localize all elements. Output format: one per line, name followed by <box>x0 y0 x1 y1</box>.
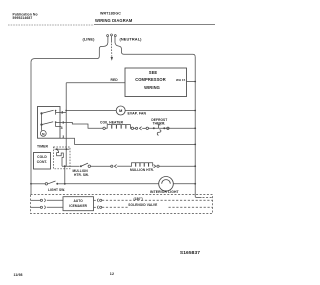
connector plug right of mullion heater <box>153 165 196 168</box>
timer switch arm upper <box>42 110 54 113</box>
cold control dashed box <box>54 147 71 169</box>
wire mullion row <box>62 165 80 167</box>
defrost coil heater resistor <box>105 125 131 129</box>
junction dot light-bus <box>194 183 196 185</box>
header publication number text <box>13 12 38 20</box>
wire timer terminal4 stub <box>56 126 62 128</box>
svg-text:SOLENOID VALVE: SOLENOID VALVE <box>128 203 157 207</box>
wire light row left <box>31 183 45 185</box>
compressor box SEE COMPRESSOR WIRING <box>125 68 187 97</box>
svg-text:1: 1 <box>62 120 64 124</box>
junction dot mullion-bus <box>194 165 196 167</box>
cold control switch bellows <box>57 149 64 166</box>
junction dot WHT-bus <box>194 81 196 83</box>
label MULLION HTR. SW. <box>73 169 89 177</box>
label TIMER <box>37 145 48 149</box>
mullion heater switch <box>80 163 111 167</box>
svg-text:CONT.: CONT. <box>37 160 47 164</box>
wire evap fan row left <box>66 110 116 112</box>
cold control box <box>34 153 51 170</box>
svg-text:ICEMAKER: ICEMAKER <box>69 204 87 208</box>
connector icemaker row2 left <box>40 206 63 209</box>
svg-text:COLD: COLD <box>37 155 47 159</box>
svg-text:WIRING: WIRING <box>144 85 160 90</box>
label DEFROST THERM. <box>151 118 167 125</box>
svg-text:AUTO: AUTO <box>74 199 84 203</box>
wire light row to bulb <box>65 183 159 185</box>
feed vertical wire <box>65 83 67 166</box>
timer terminal labels <box>61 111 65 139</box>
wire bulb to right bus <box>173 183 195 185</box>
label INTERIOR LIGHT <box>150 190 180 194</box>
label WH 15 <box>176 78 186 82</box>
wire icemaker row2 left <box>31 206 41 208</box>
svg-text:LIGHT SW.: LIGHT SW. <box>48 188 65 192</box>
svg-text:(180°): (180°) <box>134 197 143 201</box>
mullion heater resistor <box>130 163 153 166</box>
junction dot mullion-left <box>64 165 66 167</box>
label 180 degrees <box>134 197 143 201</box>
label LIGHT SW. <box>48 188 65 192</box>
svg-text:MULLION HTR.: MULLION HTR. <box>130 168 154 172</box>
wire right bus into solenoid circuit <box>195 196 201 197</box>
svg-text:11/98: 11/98 <box>14 273 23 277</box>
defrost thermostat <box>146 125 195 135</box>
interior light bulb <box>159 177 174 192</box>
power cord plug prong 2 <box>111 34 113 43</box>
svg-text:WH 15: WH 15 <box>176 78 186 82</box>
timer internal wire <box>41 113 43 130</box>
left bus wire <box>30 62 32 194</box>
wire evap fan row right <box>125 110 195 112</box>
coil heater terminal left <box>103 127 105 129</box>
coil heater terminal right <box>131 127 133 129</box>
connector plug in heater row <box>134 127 146 130</box>
auto icemaker box <box>63 197 94 211</box>
timer contact dots <box>40 112 42 114</box>
svg-text:2: 2 <box>61 111 63 115</box>
connector icemaker row1 right <box>94 199 213 202</box>
timer terminal stub 1 <box>55 122 57 127</box>
svg-text:TIMER: TIMER <box>37 145 48 149</box>
svg-text:RED: RED <box>111 78 119 82</box>
wire RED feed corner to compressor <box>66 82 125 84</box>
wire mullion to light row vertical <box>64 166 66 184</box>
wire timer terminal3 to right bus <box>60 138 195 144</box>
timer switch arm lower <box>42 122 54 125</box>
svg-text:WIRING DIAGRAM: WIRING DIAGRAM <box>95 18 133 23</box>
label (NEUTRAL) <box>120 37 143 42</box>
label EVAP. FAN <box>128 111 147 115</box>
footer date <box>14 273 23 277</box>
svg-text:(NEUTRAL): (NEUTRAL) <box>120 37 143 42</box>
power cord plug prong 3 <box>114 35 116 43</box>
svg-text:INTERIOR LIGHT: INTERIOR LIGHT <box>150 190 180 194</box>
header model number text <box>100 12 121 16</box>
svg-text:S165837: S165837 <box>180 250 200 256</box>
junction dot evap-bus <box>194 110 196 112</box>
svg-text:WRT18DGC: WRT18DGC <box>100 12 121 16</box>
svg-text:4: 4 <box>61 126 63 130</box>
label SOLENOID VALVE <box>128 203 157 207</box>
wire timer terminal1 to coil heater <box>56 122 103 128</box>
junction dot defrost-bus <box>194 127 196 129</box>
svg-text:M: M <box>42 132 45 136</box>
power cord plug prong 1 <box>107 35 109 43</box>
header rule <box>8 24 94 26</box>
wire neutral-side from plug to right bus <box>115 43 195 57</box>
label COIL HEATER <box>100 120 124 124</box>
label MULLION HTR. <box>130 168 154 172</box>
defrost timer T1 box <box>38 107 61 139</box>
connector icemaker row2 right <box>94 206 213 209</box>
svg-text:COMPRESSOR: COMPRESSOR <box>135 77 166 82</box>
junction dot evap-feed <box>65 110 67 112</box>
wire timer terminal2 to feed <box>56 112 67 114</box>
wire WHT compressor to right bus <box>187 81 196 83</box>
ground wire dashed <box>111 44 113 57</box>
junction dot light-left-bus <box>30 183 32 185</box>
light switch <box>45 181 65 185</box>
connector icemaker row1 left <box>40 199 63 202</box>
wire icemaker row1 left <box>31 199 41 201</box>
svg-text:EVAP. FAN: EVAP. FAN <box>128 111 147 115</box>
timer terminal stub 2 <box>55 110 57 114</box>
svg-text:5995214687: 5995214687 <box>13 16 33 20</box>
cold control feed wire <box>55 148 70 150</box>
footer diagram number S165837 <box>180 250 200 256</box>
right bus wire <box>194 57 196 196</box>
svg-text:(LINE): (LINE) <box>82 37 95 42</box>
svg-text:SEE: SEE <box>149 70 158 75</box>
timer motor M <box>40 131 46 137</box>
junction dot timer3-bus <box>194 144 196 146</box>
label RED <box>111 78 119 82</box>
evap fan motor M1 <box>116 106 125 115</box>
header title WIRING DIAGRAM <box>95 18 133 23</box>
svg-text:12: 12 <box>110 272 114 276</box>
svg-text:COIL HEATER: COIL HEATER <box>100 120 124 124</box>
ground arrow head <box>111 57 113 61</box>
svg-text:HTR. SW.: HTR. SW. <box>74 173 89 177</box>
icemaker dashed enclosure <box>31 195 213 214</box>
connector plug in mullion row <box>111 165 130 168</box>
wire line-side from plug to left bus <box>31 43 108 63</box>
label (LINE) <box>82 37 95 42</box>
svg-text:M: M <box>119 108 123 113</box>
footer page number <box>110 272 114 276</box>
junction dot light row <box>64 183 66 185</box>
